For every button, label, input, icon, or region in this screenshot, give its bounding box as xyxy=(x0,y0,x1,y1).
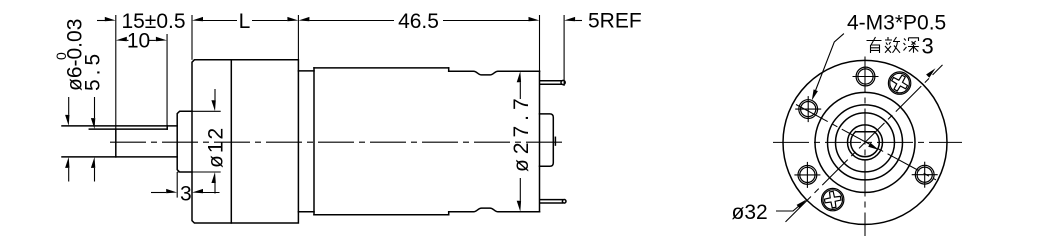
end face xyxy=(539,71,541,212)
collar circle phi7 xyxy=(848,125,883,160)
dim L xyxy=(252,20,287,22)
svg-text:0: 0 xyxy=(53,52,69,60)
terminal lower xyxy=(540,200,566,204)
boss circle phi12 xyxy=(836,113,895,172)
gearbox xyxy=(192,60,298,223)
svg-text:L: L xyxy=(239,10,251,33)
svg-text:5.5: 5.5 xyxy=(82,50,105,91)
text 有效深3 drawn as paths xyxy=(867,37,919,53)
dim 15+-0.5 xyxy=(97,20,237,22)
dim phi12 xyxy=(177,89,221,198)
svg-text:10: 10 xyxy=(127,30,150,53)
M3 hole top xyxy=(858,69,873,84)
motor can xyxy=(314,68,449,215)
dim 10 xyxy=(127,39,156,41)
svg-text:3: 3 xyxy=(922,34,934,59)
neck ring xyxy=(298,68,314,215)
dim phi6 xyxy=(68,97,70,182)
centerline xyxy=(110,141,562,143)
dim 5REF xyxy=(575,20,582,22)
centerlines xyxy=(773,57,962,237)
svg-text:ø12: ø12 xyxy=(205,126,228,168)
end cap with crimp xyxy=(449,71,540,75)
dim 46.5 xyxy=(309,20,528,22)
svg-text:3: 3 xyxy=(180,183,192,206)
rear shaft tip xyxy=(554,137,556,145)
dim phi27.7 xyxy=(519,82,521,201)
shen1 xyxy=(904,38,919,53)
raised ring circle phi15 xyxy=(828,105,903,180)
dim 3 xyxy=(151,192,220,194)
terminal upper xyxy=(540,80,565,84)
xiao4 xyxy=(885,37,900,53)
svg-text:4-M3*P0.5: 4-M3*P0.5 xyxy=(847,12,946,35)
boss phi12 xyxy=(177,111,192,172)
diagonal centerline 45deg (leader to thread note) xyxy=(786,65,943,222)
shaft circle phi6 with D-flat xyxy=(851,132,880,157)
face recess circle phi20 xyxy=(815,92,915,192)
svg-text:5REF: 5REF xyxy=(588,10,642,33)
extension lines top xyxy=(116,15,564,129)
gearbox cover joint xyxy=(230,60,232,223)
M3 holes xyxy=(798,67,934,184)
circles xyxy=(783,60,947,224)
diagonal centerline through M3 holes xyxy=(796,105,936,180)
shaft xyxy=(62,126,177,157)
you3 xyxy=(867,37,882,53)
svg-text:46.5: 46.5 xyxy=(398,10,439,33)
screws xyxy=(822,72,911,211)
M3 hole center marks xyxy=(794,77,937,188)
horizontal centerline xyxy=(773,141,962,143)
outer circle phi32 xyxy=(783,60,947,224)
svg-text:ø27.7: ø27.7 xyxy=(510,93,533,172)
vertical centerline xyxy=(864,57,866,237)
rear bearing boss xyxy=(540,114,554,166)
dim 5.5 xyxy=(94,97,96,182)
leader to M3 hole xyxy=(813,34,844,97)
screw bottom xyxy=(822,188,844,210)
leader to outer circle xyxy=(776,201,805,211)
screw upper-right xyxy=(888,72,910,94)
M3 hole right xyxy=(917,167,932,182)
M3 hole upper-left xyxy=(801,102,816,117)
M3 hole lower-left xyxy=(800,167,815,182)
arrowhead on 45deg leader line xyxy=(926,68,935,77)
arrowhead on hole-axis line xyxy=(868,143,879,150)
svg-text:ø32: ø32 xyxy=(732,201,768,224)
